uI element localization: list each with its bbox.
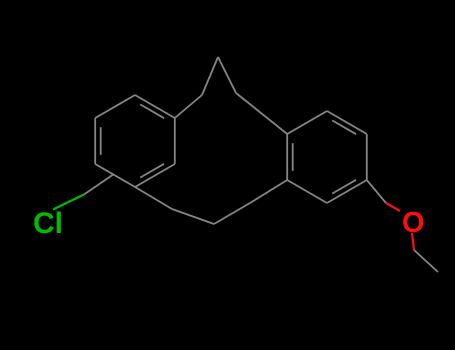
svg-text:Cl: Cl [33,207,63,240]
svg-text:O: O [402,207,425,239]
